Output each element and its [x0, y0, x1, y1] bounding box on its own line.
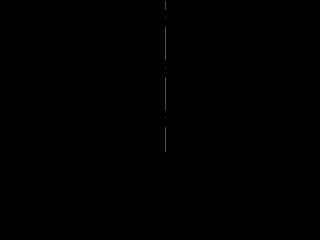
wire: red dash-dot vertical centerline at x=165: [165, 1, 166, 152]
wire segment 7 (bottom dash): [165, 127, 166, 152]
wire segment 5 (long dash): [165, 77, 166, 110]
wire segment 2 (dot): [165, 17, 166, 18]
wire segment 6 (dot): [165, 117, 166, 118]
wire segment 3 (long dash): [165, 27, 166, 60]
wire segment 4 (dot): [165, 67, 166, 68]
schematic canvas (black background): [0, 0, 270, 156]
wire segment 1 (top dash): [165, 1, 166, 10]
